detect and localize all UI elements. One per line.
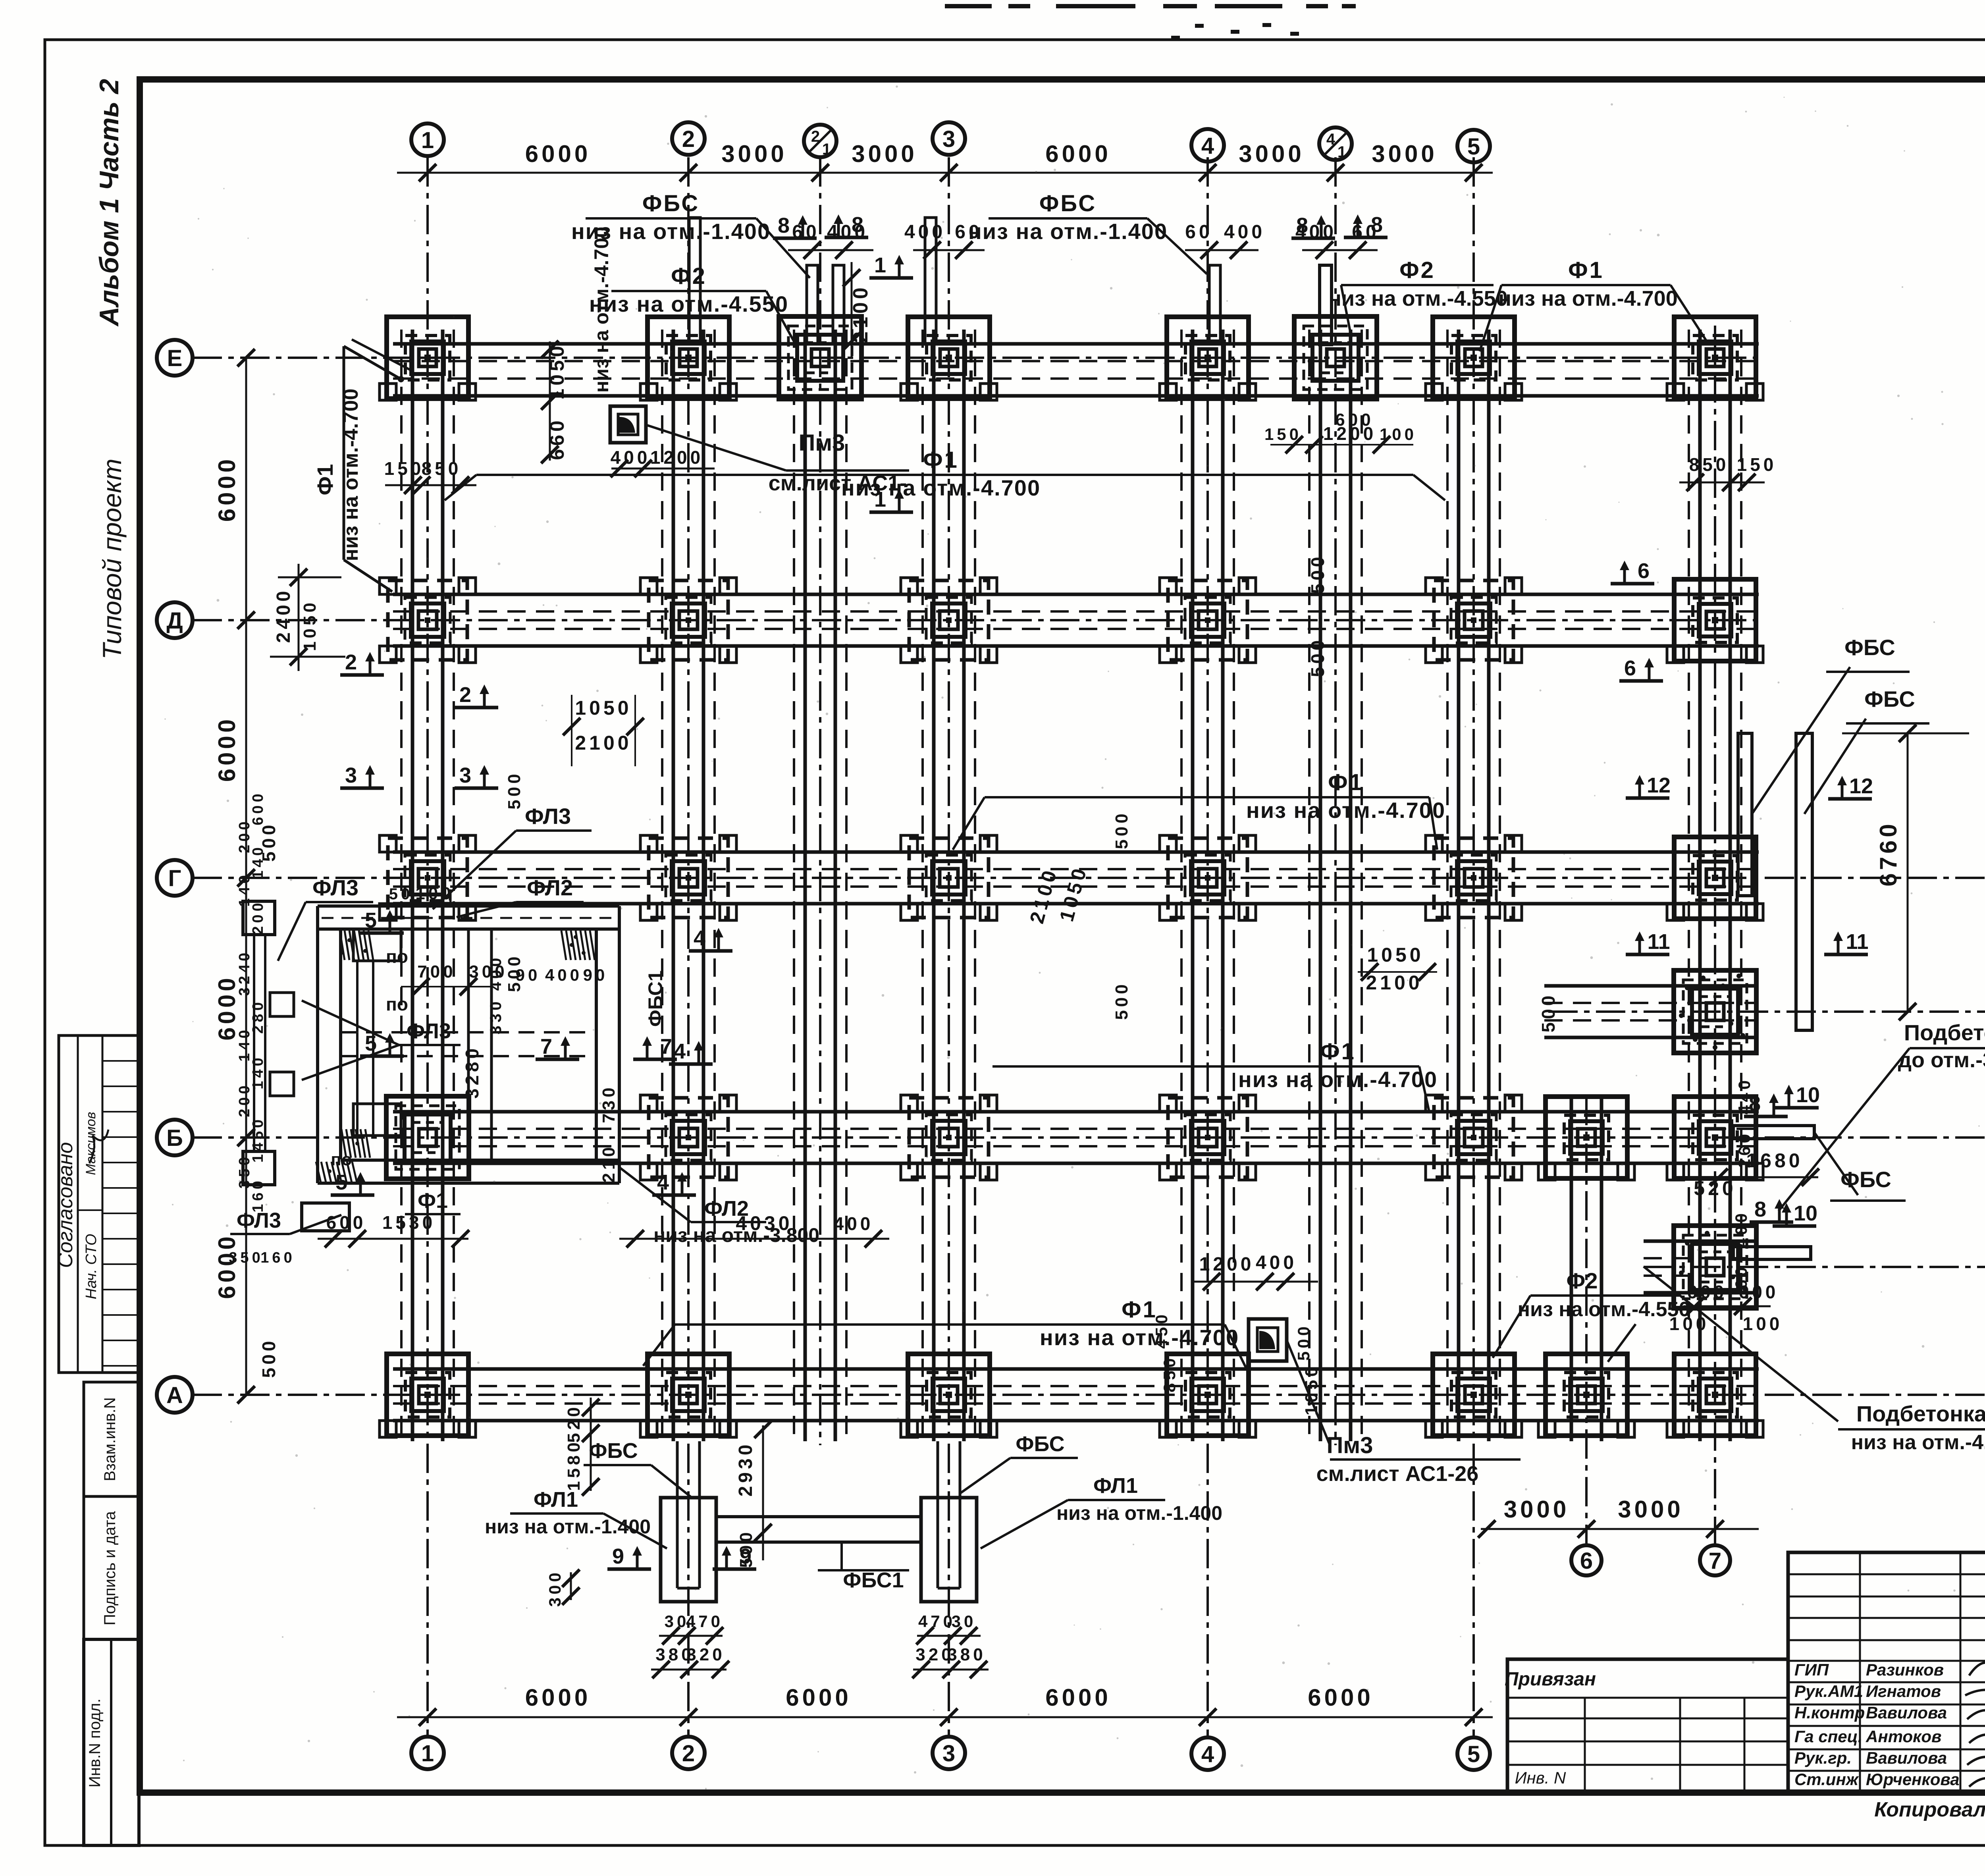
foundation pad Г-5 (padI) <box>1426 835 1522 920</box>
ФЛ1 footing vertical strip axis 3 <box>937 1441 939 1588</box>
svg-text:850: 850 <box>422 458 462 479</box>
svg-text:Типовой проект: Типовой проект <box>97 459 127 659</box>
svg-text:500: 500 <box>505 771 524 809</box>
wall strip row А top line <box>393 1367 1759 1371</box>
title block attachment table Привязан <box>1507 1659 1788 1793</box>
wall strip col 7 left line <box>1698 330 1702 1441</box>
axis circle А left <box>157 1377 193 1413</box>
svg-text:ФЛ2: ФЛ2 <box>527 875 573 900</box>
svg-text:260: 260 <box>1735 1131 1754 1168</box>
foundation pad Е-2a (padD) <box>779 316 861 399</box>
svg-text:12: 12 <box>1647 773 1671 797</box>
svg-text:Ф1: Ф1 <box>923 447 959 473</box>
svg-text:2100: 2100 <box>1366 972 1422 994</box>
foundation pad Д-3 (padI) <box>901 578 997 663</box>
svg-text:100: 100 <box>1380 425 1417 443</box>
svg-text:9: 9 <box>612 1544 624 1568</box>
wall strip row А1 bottom line <box>1644 1291 1759 1295</box>
svg-text:Нач. СТО: Нач. СТО <box>83 1234 100 1300</box>
svg-text:500: 500 <box>1112 810 1131 849</box>
section mark 8 <box>825 213 868 237</box>
stipple on pad В-7 <box>1685 985 1690 990</box>
svg-text:6000: 6000 <box>786 1684 851 1711</box>
sidebar cell Инв.N подл. <box>84 1639 139 1845</box>
svg-text:1050: 1050 <box>546 343 568 399</box>
foundation pad Б-6 (padE) <box>1538 1097 1634 1180</box>
svg-text:440: 440 <box>1735 1077 1754 1114</box>
ФБС stub above row Е at axis 4/1 <box>1320 265 1332 345</box>
dimension 600 1530 below complex <box>318 1238 468 1240</box>
svg-text:350: 350 <box>229 1249 263 1266</box>
svg-text:470: 470 <box>686 1612 723 1631</box>
foundation pad В-7 (padD) <box>1674 970 1756 1053</box>
svg-text:2400: 2400 <box>273 588 294 643</box>
svg-text:ФБС1: ФБС1 <box>843 1568 904 1592</box>
svg-text:Ф2: Ф2 <box>1399 257 1435 283</box>
wall strip col 2/1 foundation dashed lines <box>793 330 795 1441</box>
wall strip col 4/1 right line <box>1349 330 1353 1441</box>
axis line col 5 <box>1472 157 1475 1736</box>
wall strip col 6 right line <box>1600 1096 1603 1441</box>
foundation pad А-6 (padE) <box>1538 1354 1634 1437</box>
section mark 8 <box>773 214 817 238</box>
svg-text:Г: Г <box>168 866 181 891</box>
svg-text:450: 450 <box>1152 1311 1171 1349</box>
svg-text:5: 5 <box>1467 1741 1480 1767</box>
axis line row А1 <box>1644 1266 1985 1268</box>
svg-text:низ на отм.-4.700: низ на отм.-4.700 <box>1238 1067 1438 1092</box>
foundation pad Б-3 (padI) <box>901 1095 997 1180</box>
wall strip row Б top line <box>393 1110 1759 1114</box>
wall strip row Д top line <box>393 593 1759 596</box>
section mark 5 <box>360 1032 404 1056</box>
svg-text:ФБС1: ФБС1 <box>644 970 667 1027</box>
signature squiggles <box>1965 1662 1985 1789</box>
axis line col 7 <box>1714 326 1716 1544</box>
stub dimension 60 400 at axis 2/1 <box>788 249 873 251</box>
svg-text:400: 400 <box>611 447 651 468</box>
svg-text:по: по <box>386 946 408 967</box>
dimension 520 1580 at axis 2 <box>590 1398 592 1491</box>
foundation pad А-5 (padE) <box>1426 1354 1522 1437</box>
svg-text:ФБС: ФБС <box>1016 1432 1064 1456</box>
svg-text:Согласовано: Согласовано <box>54 1142 77 1268</box>
svg-text:6: 6 <box>1638 559 1650 583</box>
axis line col 2 <box>687 157 690 1736</box>
svg-text:Копировал: Жукова: Копировал: Жукова <box>1874 1798 1985 1821</box>
wall strip row А inner dashed lines <box>393 1402 1759 1405</box>
svg-text:низ на отм.-4.550: низ на отм.-4.550 <box>1328 287 1507 310</box>
wall strip col 1 foundation dashed lines <box>400 330 403 1441</box>
axis line row Е <box>193 357 1763 359</box>
svg-text:520: 520 <box>564 1404 584 1442</box>
basement internal partition walls <box>467 929 470 1160</box>
wall strip row Г top line <box>393 850 1759 854</box>
svg-text:1: 1 <box>421 1741 434 1766</box>
section mark 9 <box>713 1544 756 1569</box>
svg-text:1530: 1530 <box>382 1212 436 1233</box>
svg-text:ФЛ3: ФЛ3 <box>312 875 358 900</box>
section mark 7 <box>633 1035 677 1059</box>
svg-text:4: 4 <box>1326 131 1336 148</box>
axis circle 3 top <box>933 122 965 155</box>
svg-text:1050: 1050 <box>1302 1364 1321 1415</box>
axis line row Г <box>193 877 1985 879</box>
svg-text:Инв.N подл.: Инв.N подл. <box>86 1699 104 1787</box>
svg-text:200: 200 <box>236 1082 253 1117</box>
wall strip col 5 left line <box>1457 330 1461 1441</box>
ФБС1 connecting strip <box>716 1515 921 1518</box>
foundation pad Б-7 (padE) <box>1667 1097 1763 1180</box>
wall strip row Б inner dashed lines <box>393 1145 1759 1147</box>
wall strip row А bottom line <box>393 1419 1759 1423</box>
svg-text:ФБС: ФБС <box>1840 1167 1891 1192</box>
foundation pad Б-4 (padI) <box>1160 1095 1256 1180</box>
svg-text:Разинков: Разинков <box>1866 1660 1944 1679</box>
svg-text:2: 2 <box>682 126 695 152</box>
section mark 1 <box>869 253 913 278</box>
foundation pad Б-2 (padI) <box>640 1095 736 1180</box>
svg-text:100: 100 <box>415 884 454 903</box>
rotated label Ф1 низ на отм.-4.700 along col 1 with bracket leader <box>344 346 401 379</box>
label ФБС leader (lower) <box>1804 719 1866 814</box>
foundation pad Д-1 (padI) <box>380 578 476 663</box>
svg-text:6000: 6000 <box>525 1684 591 1711</box>
dimension 1200 400 above row А at axis 4/1 <box>1191 1281 1318 1283</box>
svg-text:6000: 6000 <box>214 456 240 522</box>
scanner noise top edge <box>945 4 1356 40</box>
ФБС stub above row Е at axis 2 <box>689 218 700 344</box>
wall strip col 4 left line <box>1191 330 1195 1441</box>
wall strip row Г bottom line <box>393 902 1759 906</box>
ФБС bar at row А1 right <box>1733 1247 1811 1259</box>
foundation pad Е-3 (padE) <box>901 317 997 400</box>
ФБС bar right (tall) <box>1796 733 1812 1030</box>
section mark 10 <box>1773 1201 1817 1226</box>
svg-text:50: 50 <box>389 885 413 903</box>
label Пм3 см.лист АС1-26 (row А) <box>1249 1319 1287 1361</box>
basement wall top ФЛ2 <box>318 904 619 908</box>
svg-text:Ф1: Ф1 <box>1320 1039 1356 1064</box>
foundation pad А1-7 (padD) <box>1674 1226 1756 1308</box>
section mark 11 <box>1626 930 1670 954</box>
svg-text:12: 12 <box>1849 774 1873 798</box>
svg-text:4: 4 <box>657 1170 669 1194</box>
foundation pad А-2 (padE) <box>640 1354 736 1437</box>
axis line col 2/1 <box>819 157 821 1445</box>
svg-text:1680: 1680 <box>1746 1149 1803 1172</box>
svg-text:160: 160 <box>260 1249 295 1266</box>
svg-text:2100: 2100 <box>849 284 872 343</box>
svg-text:400: 400 <box>834 1213 874 1234</box>
foundation pad Е-1 (padE) <box>380 317 476 400</box>
svg-text:600: 600 <box>1739 1282 1779 1302</box>
ФЛ3 strips left of col 1 <box>243 901 275 935</box>
svg-text:Ф1: Ф1 <box>418 1189 448 1213</box>
svg-text:1: 1 <box>874 488 886 511</box>
svg-text:Пм3: Пм3 <box>799 430 845 456</box>
svg-text:3: 3 <box>345 764 357 787</box>
svg-text:ФБС: ФБС <box>1039 191 1097 216</box>
sidebar cell Взам.инв.N <box>84 1382 139 1496</box>
svg-text:700: 700 <box>417 962 456 981</box>
dimension 150 850 col 1 <box>385 484 476 486</box>
foundation pad Д-5 (padI) <box>1426 578 1522 663</box>
dims 700 300 in complex <box>401 986 492 987</box>
svg-text:низ на отм.-1.400: низ на отм.-1.400 <box>1056 1502 1222 1524</box>
svg-text:380: 380 <box>947 1645 986 1664</box>
svg-text:низ на отм.-4.700: низ на отм.-4.700 <box>339 389 362 561</box>
basement stipple dots <box>328 935 586 1173</box>
svg-text:до отм.-3.200: до отм.-3.200 <box>1898 1048 1985 1072</box>
svg-text:10: 10 <box>1794 1201 1817 1225</box>
axis circle 7 bottom <box>1700 1545 1730 1575</box>
wall strip row В top line <box>1544 984 1759 988</box>
axis circle 4/1 top <box>1319 127 1352 160</box>
dimension 30 470 / 380 320 axis 2 <box>659 1635 723 1637</box>
svg-text:400: 400 <box>487 955 505 991</box>
axis circle 3 bottom <box>933 1737 965 1769</box>
svg-text:низ на отм.-4.700: низ на отм.-4.700 <box>1246 798 1445 823</box>
section mark 3 <box>455 764 498 788</box>
svg-text:ФБС: ФБС <box>1844 635 1895 660</box>
svg-text:400: 400 <box>904 222 946 243</box>
approval stamp table Согласовано <box>59 1035 139 1373</box>
svg-text:2100: 2100 <box>575 732 632 754</box>
svg-text:3240: 3240 <box>236 950 253 996</box>
label ФБС at row Б right <box>1814 1132 1858 1195</box>
svg-text:6000: 6000 <box>525 141 591 167</box>
foundation pad Г-1 (padI) <box>380 835 476 920</box>
foundation pad Е-7 (padE) <box>1667 317 1763 400</box>
svg-text:Пм3: Пм3 <box>1327 1433 1373 1458</box>
svg-text:низ на отм.-4.550: низ на отм.-4.550 <box>1518 1298 1690 1321</box>
svg-text:600: 600 <box>326 1212 366 1233</box>
wall strip row А1 top line <box>1644 1240 1759 1243</box>
svg-text:Максимов: Максимов <box>83 1112 98 1175</box>
svg-text:4030: 4030 <box>736 1212 792 1234</box>
stub dimension 400 60 at axis 4/1 <box>1302 249 1378 251</box>
svg-text:4: 4 <box>694 926 705 950</box>
section mark 5 <box>331 1170 374 1195</box>
svg-text:2: 2 <box>345 650 357 674</box>
dimension 470 30 / 320 380 axis 3 <box>917 1635 981 1637</box>
svg-text:500: 500 <box>736 1529 756 1568</box>
svg-text:2: 2 <box>682 1741 695 1766</box>
svg-text:330: 330 <box>487 999 505 1035</box>
wall strip col 2 left line <box>672 330 675 1441</box>
svg-text:160: 160 <box>250 1178 266 1212</box>
svg-text:500: 500 <box>1307 554 1328 594</box>
wall strip col 2/1 right line <box>834 330 837 1441</box>
wall strip col 3 foundation dashed lines <box>921 330 924 1441</box>
ФЛ1 footing plate axis 3 <box>921 1498 977 1602</box>
svg-text:4: 4 <box>1201 133 1214 159</box>
svg-text:по: по <box>331 1150 352 1169</box>
wall strip col 2 right line <box>702 330 705 1441</box>
svg-text:11: 11 <box>1647 930 1670 954</box>
svg-text:Б: Б <box>166 1125 183 1151</box>
axis line col 3 <box>948 157 950 1736</box>
section mark 3 <box>340 764 384 788</box>
ФБС bar right of col 7 (upper) <box>1738 733 1752 896</box>
svg-text:8: 8 <box>1754 1197 1766 1221</box>
foundation pad Г-3 (padI) <box>901 835 997 920</box>
svg-text:8: 8 <box>1371 213 1383 237</box>
svg-text:Ст.инж: Ст.инж <box>1794 1770 1859 1789</box>
svg-text:ГИП: ГИП <box>1794 1660 1829 1679</box>
ФЛ3 small pads column outside <box>270 993 294 1016</box>
bottom-right dimension line 6-7 <box>1481 1528 1759 1530</box>
foundation pad Д-7 (padE) <box>1667 579 1763 663</box>
svg-text:520: 520 <box>1694 1177 1736 1199</box>
ФБС stub above row Е at axis 4 <box>1209 265 1220 344</box>
section mark 8 <box>1291 214 1335 238</box>
svg-text:ФЛ1: ФЛ1 <box>1093 1474 1138 1498</box>
foundation pad Е-4a (padD) <box>1294 316 1377 399</box>
wall strip row Д bottom line <box>393 644 1759 648</box>
wall strip col 5 foundation dashed lines <box>1446 330 1449 1441</box>
svg-text:низ на отм.-4.700: низ на отм.-4.700 <box>1851 1431 1985 1454</box>
dimension 600 600 100 100 near А1-7 <box>1683 1305 1771 1307</box>
svg-text:Инв. N: Инв. N <box>1515 1768 1566 1787</box>
left dimension line <box>245 358 247 1395</box>
svg-text:1: 1 <box>1337 143 1346 161</box>
svg-text:Антоков: Антоков <box>1866 1727 1941 1746</box>
wall strip col 1 right line <box>441 330 445 1441</box>
leader to pad Е-1 <box>352 339 413 371</box>
svg-text:1200: 1200 <box>1323 423 1376 444</box>
svg-text:1: 1 <box>421 127 434 153</box>
wall strip row Б bottom line <box>393 1162 1759 1165</box>
wall strip col 4 foundation dashed lines <box>1180 330 1183 1441</box>
wall strip row В inner dashed lines <box>1544 1019 1759 1022</box>
svg-text:низ на отм.-4.700: низ на отм.-4.700 <box>590 227 613 393</box>
axis line col 1 <box>426 157 429 1736</box>
section mark 12 <box>1828 774 1873 799</box>
svg-text:6: 6 <box>1580 1548 1593 1574</box>
dimension 2400 1050 left row Д <box>278 576 341 578</box>
axis circle 2 bottom <box>672 1737 705 1769</box>
section mark 8 <box>1344 213 1388 237</box>
basement wall bottom ФЛ2 <box>318 1182 619 1185</box>
svg-text:низ на отм.-4.550: низ на отм.-4.550 <box>589 291 788 316</box>
bottom dimension line <box>397 1716 1493 1718</box>
section mark 11 <box>1824 930 1869 954</box>
svg-text:6000: 6000 <box>214 716 240 782</box>
svg-text:5: 5 <box>1467 134 1480 160</box>
dimension 400 1200 below Пм3 <box>611 468 715 470</box>
svg-text:400: 400 <box>1224 222 1265 243</box>
section mark 12 <box>1626 773 1671 798</box>
section mark 8 <box>1750 1197 1793 1222</box>
svg-text:3000: 3000 <box>1618 1496 1683 1523</box>
title block signature table <box>1788 1552 1985 1793</box>
dimension 4030 400 <box>619 1238 889 1240</box>
wall strip row Е top line <box>393 342 1759 346</box>
foundation pad Г-2 (padI) <box>640 835 736 920</box>
svg-text:3: 3 <box>942 1741 955 1766</box>
ФБС bar at row Б right <box>1733 1126 1814 1139</box>
dimension 2930 500 center <box>762 1425 764 1560</box>
svg-text:2930: 2930 <box>735 1442 756 1497</box>
svg-text:850: 850 <box>1160 1355 1179 1392</box>
complex internal walls <box>356 961 358 1136</box>
svg-text:10: 10 <box>1796 1083 1820 1107</box>
svg-text:500: 500 <box>1294 1323 1313 1361</box>
svg-text:Ф2: Ф2 <box>1567 1268 1598 1293</box>
svg-text:3: 3 <box>459 764 471 787</box>
foundation pad Г-7 (padE) <box>1667 837 1763 920</box>
axis circle Д left <box>157 602 193 638</box>
ФЛ1 footing plate axis 2 <box>661 1498 716 1602</box>
foundation pad Б-1 (padD) <box>386 1096 469 1179</box>
svg-text:Га спец.: Га спец. <box>1794 1727 1862 1746</box>
svg-text:по: по <box>386 994 408 1014</box>
svg-text:низ на отм.-1.400: низ на отм.-1.400 <box>968 219 1168 244</box>
wall strip row А1 inner dashed lines <box>1644 1274 1759 1277</box>
wall strip col 4/1 left line <box>1319 330 1322 1441</box>
label Пм3 см.лист АС1- (row Е) <box>610 406 646 443</box>
svg-text:500: 500 <box>1307 637 1328 677</box>
axis line col 6 <box>1585 1096 1588 1544</box>
svg-text:Н.контр: Н.контр <box>1794 1703 1865 1722</box>
svg-text:4: 4 <box>1201 1741 1214 1767</box>
svg-text:150: 150 <box>384 458 424 479</box>
svg-text:210: 210 <box>599 1144 619 1182</box>
svg-text:низ на отм.-4.700: низ на отм.-4.700 <box>1498 287 1677 310</box>
svg-text:30: 30 <box>952 1612 977 1631</box>
svg-text:8: 8 <box>778 214 790 237</box>
axis circle 5 top <box>1457 130 1490 162</box>
svg-text:ФЛ3: ФЛ3 <box>407 1019 451 1043</box>
wall strip col 3 right line <box>962 330 966 1441</box>
wall strip row Г inner dashed lines <box>393 885 1759 888</box>
axis circle Г left <box>157 860 193 896</box>
axis circle 6 bottom <box>1571 1545 1601 1575</box>
svg-text:1050: 1050 <box>300 600 320 651</box>
basement wall right ФБС1 <box>595 929 598 1160</box>
wall strip col 6 left line <box>1570 1096 1573 1441</box>
svg-text:6000: 6000 <box>1045 1684 1111 1711</box>
svg-text:Вавилова: Вавилова <box>1866 1749 1947 1767</box>
section mark 4 <box>669 1039 713 1064</box>
ФБС stubs above row Е at axis 2/1 <box>807 265 818 344</box>
svg-text:1: 1 <box>822 141 831 158</box>
section mark 9 <box>607 1544 651 1569</box>
svg-text:600: 600 <box>1687 1282 1727 1302</box>
stipple on pad А1-7 <box>1685 1241 1690 1246</box>
foundation pad Е-5 (padE) <box>1426 317 1522 400</box>
axis line row Д <box>193 619 1763 621</box>
foundation pad Д-4 (padI) <box>1160 578 1256 663</box>
section mark 5 <box>360 908 404 933</box>
svg-text:Рук.АМ1: Рук.АМ1 <box>1794 1682 1863 1701</box>
svg-text:ФБС: ФБС <box>589 1439 638 1463</box>
wall strip row Е inner dashed lines <box>393 378 1759 380</box>
label ФБС1 <box>840 1542 843 1570</box>
svg-text:А: А <box>166 1382 183 1408</box>
svg-text:320: 320 <box>686 1645 725 1664</box>
svg-text:1050: 1050 <box>575 697 632 719</box>
svg-text:Альбом 1 Часть 2: Альбом 1 Часть 2 <box>94 79 124 327</box>
wall strip row Е bottom line <box>393 394 1759 398</box>
basement inner hatch patches <box>316 931 595 1182</box>
svg-text:1: 1 <box>874 253 886 277</box>
wall strip col 2 foundation dashed lines <box>661 330 663 1441</box>
svg-text:3000: 3000 <box>1372 141 1437 167</box>
svg-text:1580: 1580 <box>564 1439 584 1491</box>
